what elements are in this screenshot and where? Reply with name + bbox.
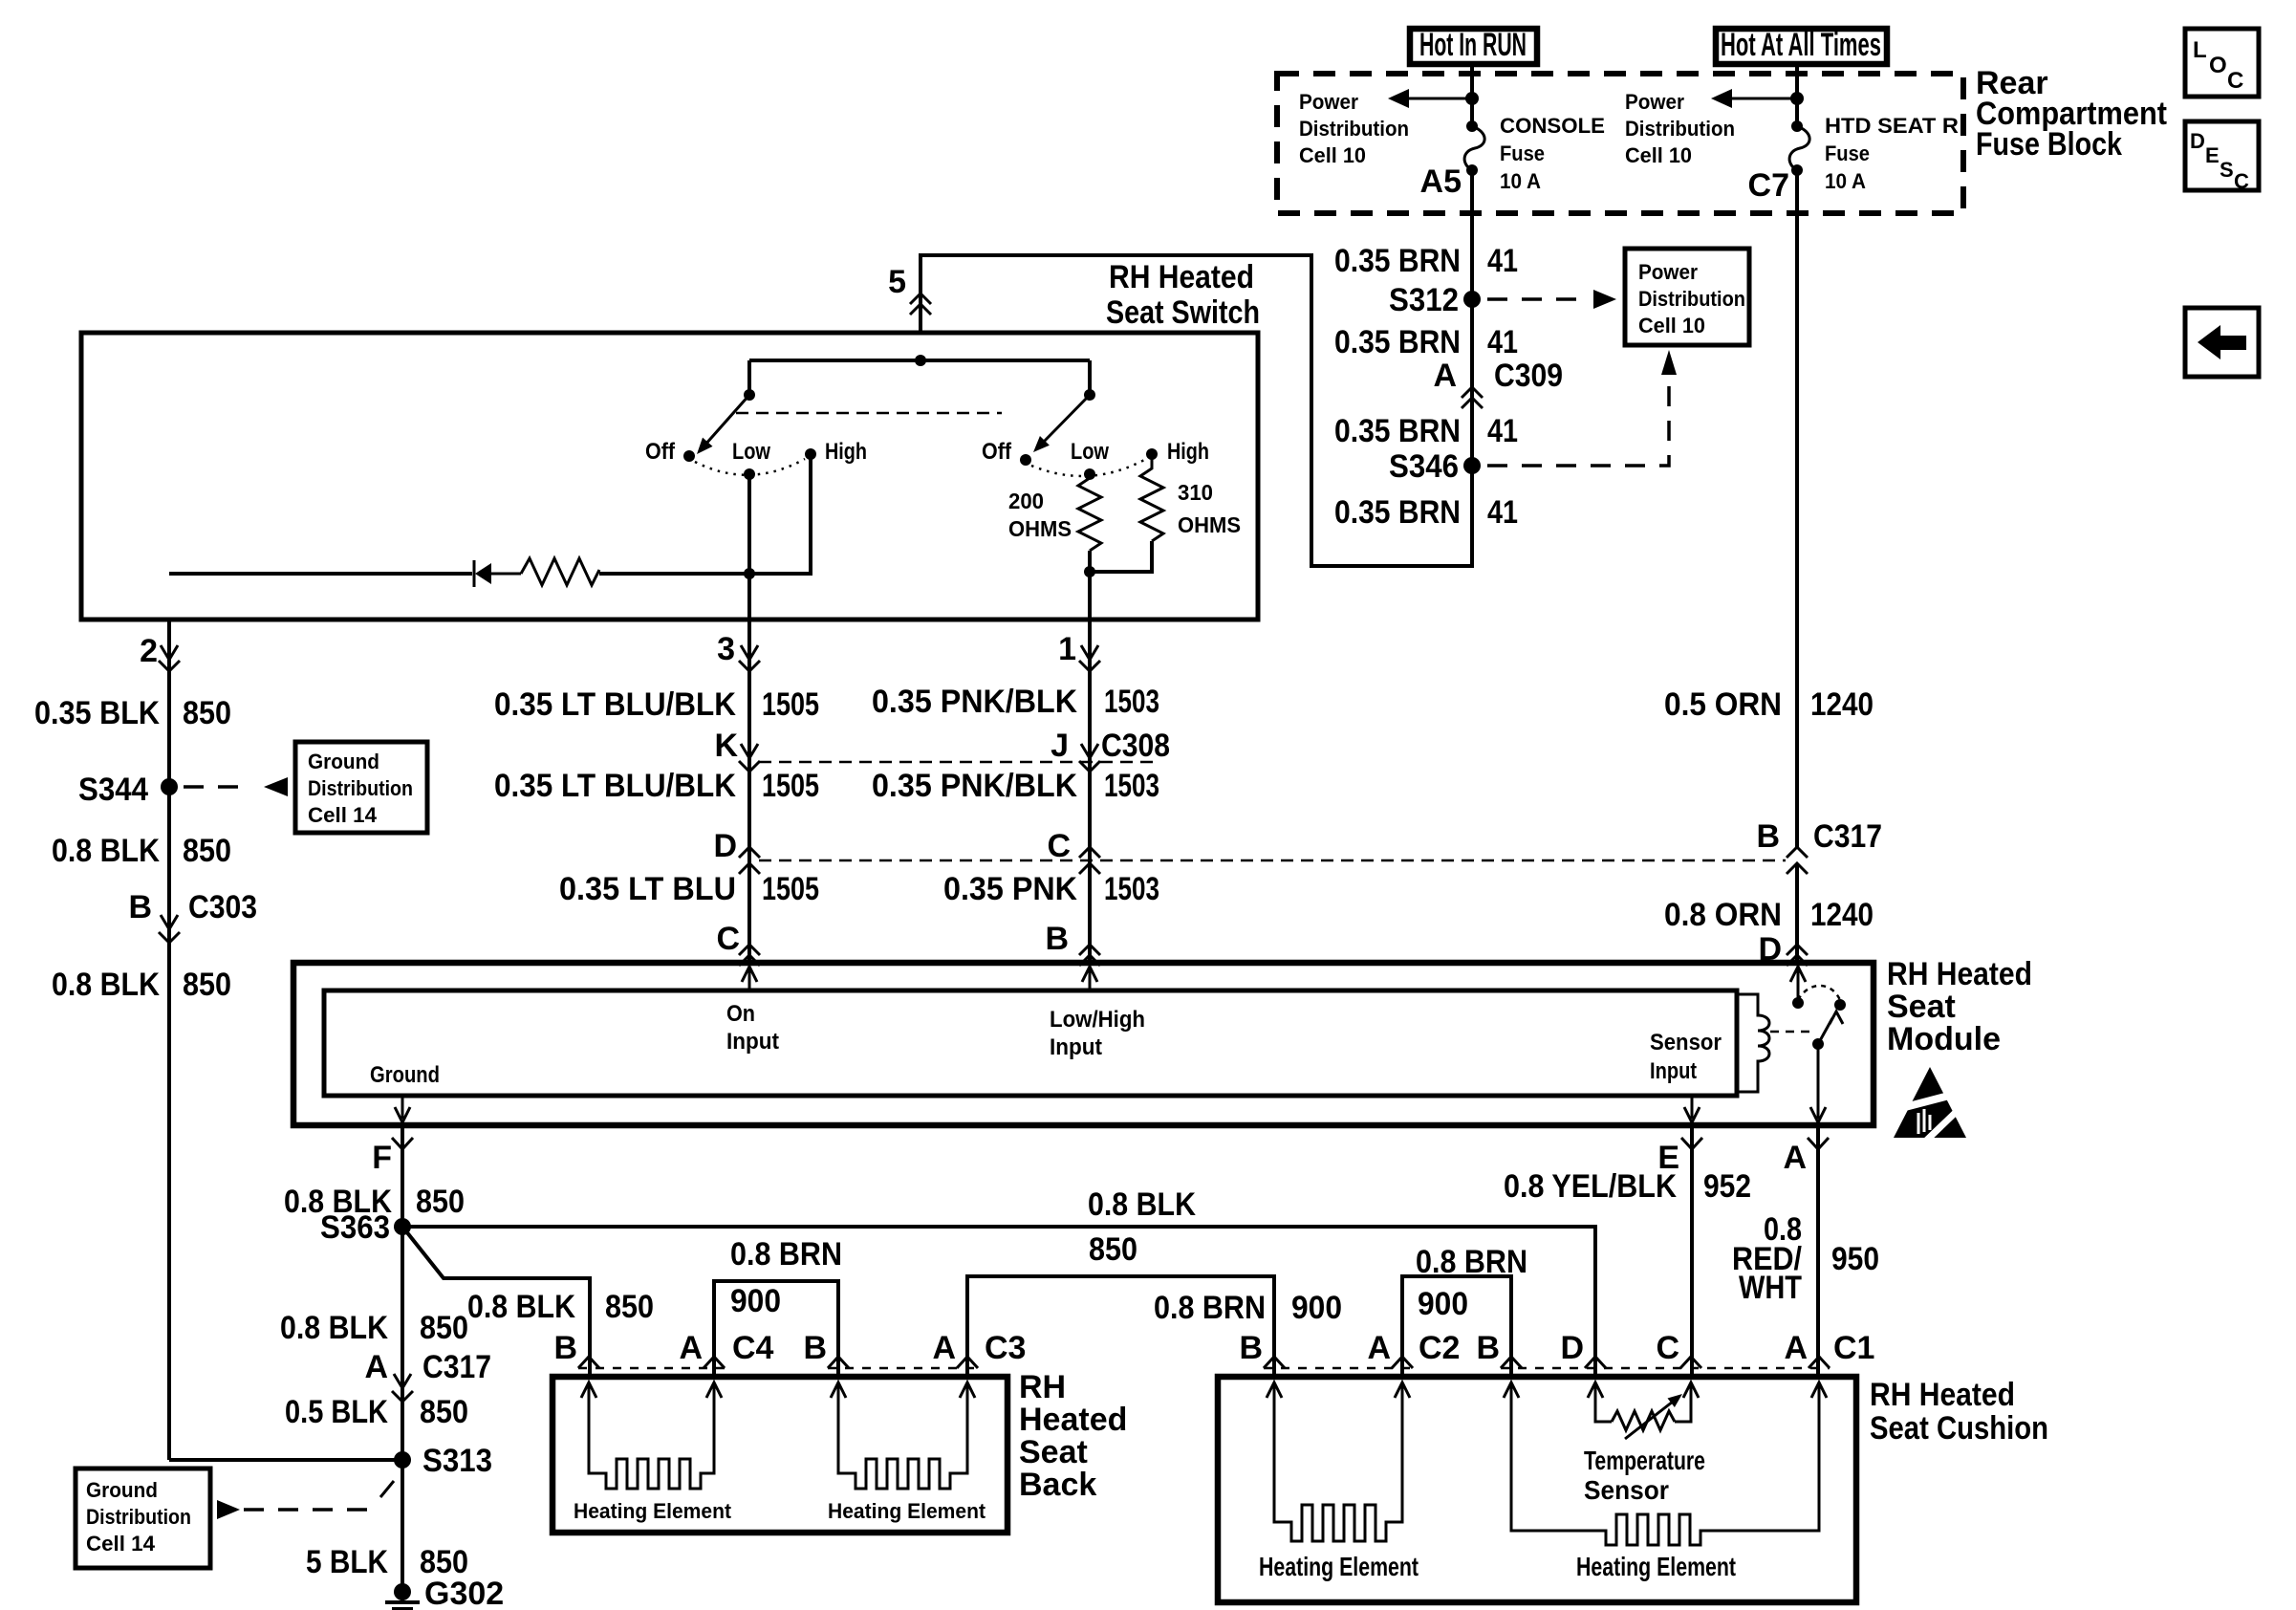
svg-text:C317: C317: [1813, 818, 1882, 855]
svg-text:Heating Element: Heating Element: [1576, 1552, 1736, 1581]
connector C2 dashed line: [1264, 1367, 1413, 1370]
svg-text:0.8 BRN: 0.8 BRN: [730, 1236, 842, 1273]
resistor 200 OHMS: [1078, 474, 1101, 551]
svg-text:OHMS: OHMS: [1178, 512, 1241, 537]
svg-text:C4: C4: [732, 1330, 774, 1366]
svg-text:A: A: [1433, 358, 1457, 394]
wire pin 1 exit: [1088, 551, 1092, 620]
right contact Low: [1084, 468, 1095, 480]
svg-text:850: 850: [420, 1394, 468, 1430]
left contact High: [805, 448, 816, 460]
svg-text:850: 850: [416, 1184, 465, 1220]
svg-text:D: D: [2190, 129, 2205, 153]
svg-text:Off: Off: [645, 439, 676, 465]
svg-text:F: F: [372, 1140, 392, 1176]
relay coil: [1737, 994, 1769, 1092]
splice S313: [394, 1451, 411, 1469]
svg-text:C308: C308: [1101, 728, 1170, 764]
svg-text:0.5 ORN: 0.5 ORN: [1664, 686, 1782, 723]
svg-text:200: 200: [1008, 489, 1044, 513]
splice S363: [394, 1218, 411, 1235]
wire bridge 0.8 BLK 850 (C3 A to C2 B): [967, 1276, 1274, 1377]
dashed reference arrow to Ground Distribution Cell 14: [184, 785, 250, 789]
wire to left wiper pivot: [747, 360, 751, 395]
wire switch common feed: [749, 359, 1090, 362]
svg-text:1503: 1503: [1104, 684, 1159, 720]
svg-text:B: B: [1239, 1330, 1263, 1366]
svg-text:Heating Element: Heating Element: [1259, 1552, 1419, 1581]
wire pin A inside module: [1817, 1044, 1820, 1119]
svg-text:S346: S346: [1389, 448, 1459, 485]
svg-text:0.8 ORN: 0.8 ORN: [1664, 897, 1782, 933]
svg-text:E: E: [2205, 143, 2220, 167]
module pin E: [1681, 1138, 1702, 1149]
svg-text:1503: 1503: [1104, 871, 1159, 907]
svg-text:Cell 14: Cell 14: [86, 1532, 156, 1556]
label Hot At All Times box: [1716, 29, 1887, 64]
svg-text:Hot In RUN: Hot In RUN: [1419, 27, 1527, 63]
svg-text:Heating Element: Heating Element: [828, 1499, 986, 1523]
Ground Distribution Cell 14 reference box: [295, 742, 427, 833]
svg-text:1505: 1505: [762, 768, 819, 804]
connector C1 dashed line: [1501, 1367, 1830, 1370]
wire 0.35 BRN 41 from fuse A5 down: [921, 170, 1472, 566]
svg-text:HTD SEAT R: HTD SEAT R: [1825, 114, 1959, 138]
svg-text:C317: C317: [422, 1349, 491, 1385]
connector C308 dashed line: [759, 761, 1159, 764]
module pin A: [1808, 1138, 1829, 1149]
svg-text:0.35 LT BLU/BLK: 0.35 LT BLU/BLK: [494, 686, 736, 723]
back-arrow box: [2185, 308, 2259, 377]
svg-text:G302: G302: [424, 1576, 504, 1610]
svg-text:0.8 BLK: 0.8 BLK: [52, 967, 160, 1003]
svg-text:High: High: [825, 439, 867, 465]
svg-text:K: K: [714, 728, 738, 764]
svg-text:10 A: 10 A: [1825, 169, 1866, 193]
svg-text:1505: 1505: [762, 871, 819, 907]
module pin F: [392, 1138, 413, 1149]
svg-text:S: S: [2220, 158, 2234, 182]
svg-text:S313: S313: [422, 1443, 492, 1479]
svg-text:850: 850: [183, 967, 231, 1003]
svg-text:A: A: [1784, 1330, 1808, 1366]
ground G302: [394, 1583, 411, 1600]
DESC reference box: [2185, 121, 2259, 190]
svg-text:D: D: [713, 828, 737, 864]
svg-text:C309: C309: [1494, 358, 1563, 394]
svg-text:0.5 BLK: 0.5 BLK: [285, 1394, 388, 1430]
svg-text:Temperature: Temperature: [1584, 1446, 1705, 1475]
svg-text:Heated: Heated: [1019, 1402, 1127, 1438]
svg-text:3: 3: [717, 631, 735, 667]
splice S346: [1463, 457, 1481, 474]
node junction on HTD SEAT R fuse feed: [1790, 92, 1804, 105]
Low/High input arrow: [1082, 967, 1097, 982]
svg-text:Fuse: Fuse: [1825, 141, 1870, 165]
svg-text:850: 850: [1089, 1231, 1137, 1268]
svg-text:0.35 PNK: 0.35 PNK: [943, 871, 1077, 907]
svg-text:C: C: [716, 921, 740, 957]
label Hot In RUN box: [1410, 29, 1537, 64]
wire arrow to Power Distribution Cell 10 (right): [1724, 98, 1797, 100]
RH Heated Seat Switch box: [81, 333, 1258, 620]
diode (pointing left): [473, 560, 476, 587]
connector C4 dashed line: [578, 1367, 725, 1370]
wire S313 to G302: [401, 1460, 404, 1587]
wire joining resistors to pin 1: [1090, 541, 1152, 572]
svg-text:A: A: [364, 1349, 388, 1385]
svg-text:B: B: [1045, 921, 1069, 957]
svg-text:0.35 BRN: 0.35 BRN: [1334, 413, 1461, 449]
svg-text:Seat: Seat: [1887, 989, 1956, 1025]
svg-text:850: 850: [605, 1289, 654, 1325]
wire 0.8 ORN 1240 below C317: [1795, 865, 1799, 963]
svg-text:Low: Low: [732, 439, 770, 465]
resistor in switch ground path: [521, 558, 599, 585]
svg-text:10 A: 10 A: [1500, 169, 1541, 193]
svg-text:0.35 BRN: 0.35 BRN: [1334, 324, 1461, 360]
svg-text:Fuse: Fuse: [1500, 141, 1545, 165]
Power Distribution Cell 10 reference box: [1625, 249, 1749, 345]
svg-text:B: B: [128, 889, 152, 925]
right contact High: [1146, 448, 1158, 460]
heating element 2 (cushion): [1504, 1382, 1519, 1398]
svg-text:C7: C7: [1748, 167, 1789, 204]
svg-text:C1: C1: [1833, 1330, 1874, 1366]
svg-text:5: 5: [888, 264, 906, 300]
svg-text:Input: Input: [1650, 1058, 1697, 1084]
svg-text:Cell 14: Cell 14: [308, 803, 378, 827]
svg-text:Module: Module: [1887, 1021, 2001, 1057]
svg-text:Distribution: Distribution: [1625, 117, 1735, 141]
svg-text:D: D: [1560, 1330, 1584, 1366]
svg-text:Off: Off: [982, 439, 1012, 465]
svg-text:850: 850: [183, 695, 231, 731]
svg-text:Heating Element: Heating Element: [574, 1499, 732, 1523]
svg-text:Ground: Ground: [86, 1478, 158, 1502]
dashed reference arrow from S346 to Power Distribution Cell 10: [1487, 379, 1669, 466]
relay contact lower (to pin A): [1812, 1038, 1824, 1050]
svg-text:0.35 BRN: 0.35 BRN: [1334, 494, 1461, 531]
RH Heated Seat Back box: [552, 1377, 1007, 1533]
LOC reference box: [2185, 29, 2259, 97]
wire pin 2 rail joins S313: [169, 1458, 402, 1462]
svg-text:RH Heated: RH Heated: [1887, 956, 2032, 992]
node junction on CONSOLE fuse feed: [1465, 92, 1479, 105]
splice S344: [161, 778, 178, 795]
svg-text:Seat Switch: Seat Switch: [1106, 294, 1260, 331]
svg-text:A: A: [1367, 1330, 1391, 1366]
Ground Distribution Cell 14 reference box (lower): [76, 1469, 210, 1568]
heating element 1 (seat back): [581, 1382, 596, 1398]
dashed gang link between wipers: [736, 412, 1002, 415]
svg-text:41: 41: [1487, 494, 1518, 531]
svg-text:0.8 BRN: 0.8 BRN: [1416, 1244, 1527, 1280]
wire S363 to cushion pin D (0.8 BLK 850): [402, 1227, 1595, 1377]
svg-text:Low: Low: [1071, 439, 1109, 465]
svg-text:Power: Power: [1299, 90, 1358, 114]
svg-text:1240: 1240: [1810, 897, 1874, 933]
svg-text:B: B: [1756, 818, 1780, 855]
svg-text:Cell 10: Cell 10: [1299, 143, 1366, 167]
left wiper arm (on Off): [704, 395, 749, 446]
right wiper arm (on Off): [1042, 395, 1090, 444]
svg-text:0.35 PNK/BLK: 0.35 PNK/BLK: [872, 684, 1077, 720]
svg-text:B: B: [553, 1330, 577, 1366]
wire to right wiper pivot: [1088, 360, 1092, 395]
svg-text:Low/High: Low/High: [1050, 1007, 1145, 1033]
connector C317 dashed line: [759, 859, 1786, 862]
relay moving arm: [1818, 1018, 1832, 1044]
svg-text:Hot At All Times: Hot At All Times: [1721, 27, 1881, 63]
svg-text:On: On: [726, 1001, 755, 1027]
wire from Low contact to pin 3: [747, 474, 751, 620]
wire from Hot At All Times into fuse block: [1795, 64, 1799, 126]
heating element 1 (cushion): [1267, 1382, 1282, 1398]
svg-text:RH Heated: RH Heated: [1870, 1377, 2015, 1413]
svg-text:S312: S312: [1389, 282, 1459, 318]
svg-text:WHT: WHT: [1739, 1270, 1802, 1306]
left contact Off: [683, 450, 695, 462]
svg-text:Input: Input: [726, 1029, 779, 1055]
Rear Compartment Fuse Block dashed box: [1277, 74, 1963, 213]
svg-text:Power: Power: [1638, 260, 1698, 284]
svg-text:L: L: [2193, 37, 2207, 63]
svg-text:High: High: [1167, 439, 1209, 465]
heating element 2 (seat back): [831, 1382, 846, 1398]
wire bridge 0.8 BRN 900 (C2 A to C1 B): [1402, 1276, 1511, 1377]
relay contact fixed: [1834, 999, 1846, 1011]
RH Heated Seat Cushion box: [1218, 1377, 1856, 1602]
svg-text:0.8 BLK: 0.8 BLK: [52, 833, 160, 869]
svg-text:C: C: [1047, 828, 1071, 864]
svg-text:C2: C2: [1419, 1330, 1460, 1366]
svg-text:C: C: [2227, 68, 2243, 94]
svg-text:0.35 LT BLU: 0.35 LT BLU: [559, 871, 736, 907]
left contact dotted arc: [695, 459, 805, 475]
svg-text:RH Heated: RH Heated: [1109, 259, 1254, 295]
svg-text:41: 41: [1487, 243, 1518, 279]
right contact Off: [1020, 454, 1031, 466]
svg-text:952: 952: [1703, 1168, 1751, 1205]
svg-text:Sensor: Sensor: [1650, 1030, 1722, 1055]
svg-text:O: O: [2209, 53, 2227, 78]
svg-text:Distribution: Distribution: [86, 1505, 191, 1529]
svg-text:310: 310: [1178, 480, 1213, 505]
svg-text:RH: RH: [1019, 1369, 1066, 1405]
svg-text:S363: S363: [320, 1209, 390, 1246]
svg-text:Back: Back: [1019, 1467, 1096, 1503]
svg-text:900: 900: [1418, 1286, 1468, 1322]
svg-text:950: 950: [1831, 1241, 1879, 1277]
dashed reference arrow from Ground Distribution to S313: [217, 1500, 240, 1519]
wire S363 to seat back pin B (0.8 BLK 850): [402, 1227, 590, 1377]
svg-text:850: 850: [183, 833, 231, 869]
fuse HTD SEAT R 10A symbol: [1791, 120, 1803, 132]
svg-text:B: B: [1476, 1330, 1500, 1366]
svg-text:Fuse Block: Fuse Block: [1976, 126, 2122, 163]
svg-text:Sensor: Sensor: [1584, 1475, 1669, 1505]
fuse CONSOLE 10A symbol: [1466, 120, 1478, 132]
svg-text:Seat Cushion: Seat Cushion: [1870, 1410, 2048, 1447]
svg-text:Cell 10: Cell 10: [1638, 314, 1705, 337]
ESD sensitivity symbol: [1894, 1067, 1966, 1138]
svg-text:900: 900: [1291, 1290, 1342, 1326]
right contact dotted arc: [1031, 459, 1146, 476]
svg-text:0.8 BLK: 0.8 BLK: [467, 1289, 575, 1325]
left contact Low: [744, 468, 755, 480]
svg-text:0.8 YEL/BLK: 0.8 YEL/BLK: [1504, 1168, 1677, 1205]
On input arrow: [742, 967, 757, 982]
dashed link coil to relay contact: [1770, 1031, 1809, 1033]
svg-text:5 BLK: 5 BLK: [306, 1544, 388, 1580]
svg-text:Seat: Seat: [1019, 1434, 1088, 1470]
svg-text:0.35 PNK/BLK: 0.35 PNK/BLK: [872, 768, 1077, 804]
dashed reference arrow from S312 to Power Distribution Cell 10: [1487, 297, 1587, 301]
svg-text:1: 1: [1058, 631, 1076, 667]
temperature sensor: [1588, 1382, 1603, 1398]
svg-text:J: J: [1051, 728, 1069, 764]
svg-text:CONSOLE: CONSOLE: [1500, 114, 1605, 138]
svg-text:A: A: [679, 1330, 703, 1366]
svg-text:Distribution: Distribution: [1299, 117, 1409, 141]
svg-text:0.8 BLK: 0.8 BLK: [280, 1310, 388, 1346]
svg-text:0.35 BLK: 0.35 BLK: [34, 695, 160, 731]
svg-text:A5: A5: [1420, 163, 1462, 200]
svg-text:Distribution: Distribution: [308, 776, 413, 800]
wire from Hot In RUN into fuse block: [1470, 64, 1474, 126]
relay contact common (to ORN D input): [1792, 997, 1804, 1009]
RH Heated Seat Module inner box: [324, 990, 1737, 1096]
svg-text:Distribution: Distribution: [1638, 287, 1745, 311]
svg-text:41: 41: [1487, 413, 1518, 449]
svg-text:41: 41: [1487, 324, 1518, 360]
connector C3 dashed line: [828, 1367, 978, 1370]
wire bridge 0.8 BRN 900 (C4 A to C3 B): [714, 1281, 838, 1377]
wire from High contact down to node: [749, 454, 811, 574]
wire pin 2 ground path with diode and resistor: [169, 572, 472, 576]
svg-text:Input: Input: [1050, 1034, 1102, 1060]
svg-text:B: B: [803, 1330, 827, 1366]
svg-text:900: 900: [730, 1283, 781, 1319]
svg-text:0.8 BRN: 0.8 BRN: [1154, 1290, 1266, 1326]
svg-text:0.35 BRN: 0.35 BRN: [1334, 243, 1461, 279]
svg-text:Power: Power: [1625, 90, 1684, 114]
wire 0.5 ORN 1240 from fuse C7 down: [1795, 170, 1799, 847]
RH Heated Seat Module outer box: [293, 963, 1874, 1125]
svg-text:0.35 LT BLU/BLK: 0.35 LT BLU/BLK: [494, 768, 736, 804]
svg-text:OHMS: OHMS: [1008, 516, 1072, 541]
svg-text:C: C: [1656, 1330, 1679, 1366]
svg-text:1240: 1240: [1810, 686, 1874, 723]
svg-text:C303: C303: [188, 889, 257, 925]
svg-text:C: C: [2234, 169, 2249, 193]
svg-text:0.8 BLK: 0.8 BLK: [1088, 1186, 1196, 1223]
splice S312: [1463, 291, 1481, 308]
svg-text:A: A: [932, 1330, 956, 1366]
resistor 310 OHMS: [1140, 454, 1163, 541]
svg-text:Ground: Ground: [308, 750, 379, 773]
svg-text:850: 850: [420, 1310, 468, 1346]
wire arrow to Power Distribution Cell 10 (left): [1401, 98, 1472, 100]
svg-text:2: 2: [140, 633, 158, 669]
svg-text:A: A: [1783, 1140, 1807, 1176]
svg-text:S344: S344: [78, 772, 148, 808]
svg-text:1503: 1503: [1104, 768, 1159, 804]
svg-text:Ground: Ground: [370, 1062, 440, 1088]
svg-text:Cell 10: Cell 10: [1625, 143, 1692, 167]
svg-text:C3: C3: [985, 1330, 1026, 1366]
svg-text:1505: 1505: [762, 686, 819, 723]
